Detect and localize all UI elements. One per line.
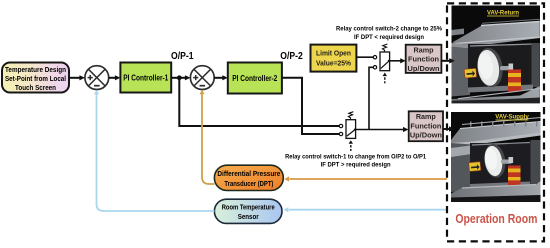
svg-text:Differential Pressure: Differential Pressure	[217, 169, 280, 178]
svg-text:VAV-Return: VAV-Return	[487, 10, 519, 17]
svg-text:PI Controller-2: PI Controller-2	[232, 74, 278, 83]
svg-text:O/P-2: O/P-2	[280, 50, 303, 62]
svg-text:VAV-Supply: VAV-Supply	[495, 113, 529, 120]
svg-text:Limit Open: Limit Open	[316, 48, 351, 57]
svg-text:Ramp: Ramp	[416, 112, 436, 121]
svg-text:Relay control switch-2 change: Relay control switch-2 change to 25%	[336, 25, 442, 32]
svg-text:Touch Screen: Touch Screen	[15, 85, 56, 92]
svg-text:Function: Function	[408, 55, 439, 64]
svg-text:Temperature Design: Temperature Design	[5, 67, 66, 74]
svg-text:Value=25%: Value=25%	[316, 58, 351, 67]
svg-text:Set-Point from Local: Set-Point from Local	[5, 76, 66, 83]
svg-text:Function: Function	[410, 121, 441, 130]
svg-text:IF DPT > required design: IF DPT > required design	[321, 162, 391, 169]
svg-text:Room Temperature: Room Temperature	[222, 202, 275, 211]
svg-text:Transducer (DPT): Transducer (DPT)	[224, 179, 273, 188]
svg-text:O/P-1: O/P-1	[171, 50, 194, 62]
svg-text:Relay control switch-1 to chan: Relay control switch-1 to change from O/…	[285, 153, 426, 160]
svg-text:Ramp: Ramp	[414, 45, 434, 54]
svg-text:Up/Down: Up/Down	[410, 131, 442, 140]
svg-text:PI Controller-1: PI Controller-1	[123, 74, 169, 83]
svg-text:IF DPT < required design: IF DPT < required design	[354, 34, 424, 41]
svg-text:Up/Down: Up/Down	[408, 64, 440, 73]
svg-text:Sensor: Sensor	[238, 212, 259, 221]
svg-text:Operation Room: Operation Room	[455, 212, 537, 226]
